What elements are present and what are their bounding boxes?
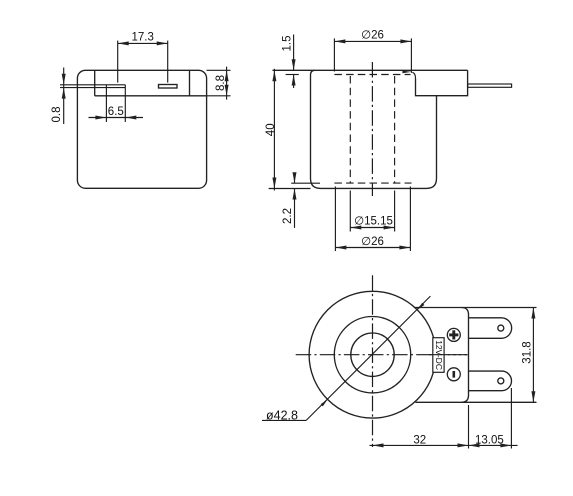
svg-text:∅15.15: ∅15.15: [354, 216, 393, 228]
svg-text:∅26: ∅26: [361, 236, 384, 248]
svg-text:12V-DC: 12V-DC: [434, 340, 444, 370]
svg-text:1.5: 1.5: [282, 36, 294, 52]
svg-text:17.3: 17.3: [132, 32, 154, 44]
svg-text:32: 32: [413, 434, 426, 446]
svg-text:∅26: ∅26: [361, 30, 384, 42]
svg-text:31.8: 31.8: [522, 341, 534, 363]
svg-text:13.05: 13.05: [475, 434, 504, 446]
svg-text:8.8: 8.8: [215, 75, 227, 91]
svg-text:6.5: 6.5: [108, 106, 124, 118]
svg-text:2.2: 2.2: [282, 208, 294, 224]
svg-text:0.8: 0.8: [51, 107, 63, 123]
svg-text:40: 40: [265, 123, 277, 136]
